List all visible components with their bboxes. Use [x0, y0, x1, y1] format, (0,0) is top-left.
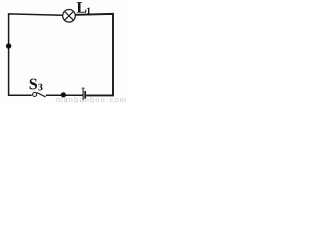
battery + tick [81, 87, 85, 89]
label L1: subscript 1 [87, 8, 90, 14]
switch S3 pivot terminal (open circle) [33, 93, 37, 97]
wire: switch to battery [46, 94, 83, 96]
watermark [56, 97, 125, 103]
label L1: letter L [77, 2, 87, 12]
battery short plate (-) [84, 91, 86, 99]
switch S3 lever (open blade) [37, 92, 46, 97]
node B (junction dot on bottom wire) [61, 92, 66, 97]
node A (junction dot on left wire) [6, 43, 11, 48]
lamp L1 (circle with X) [63, 10, 76, 23]
battery long plate (+) [82, 87, 84, 100]
label S3: letter S [30, 79, 37, 90]
wire: battery to bottom-right corner, right side, top-right segment [75, 14, 113, 96]
wire: top-left segment, left side, bottom-left segment [9, 14, 63, 95]
label S3: subscript 3 [38, 84, 42, 91]
